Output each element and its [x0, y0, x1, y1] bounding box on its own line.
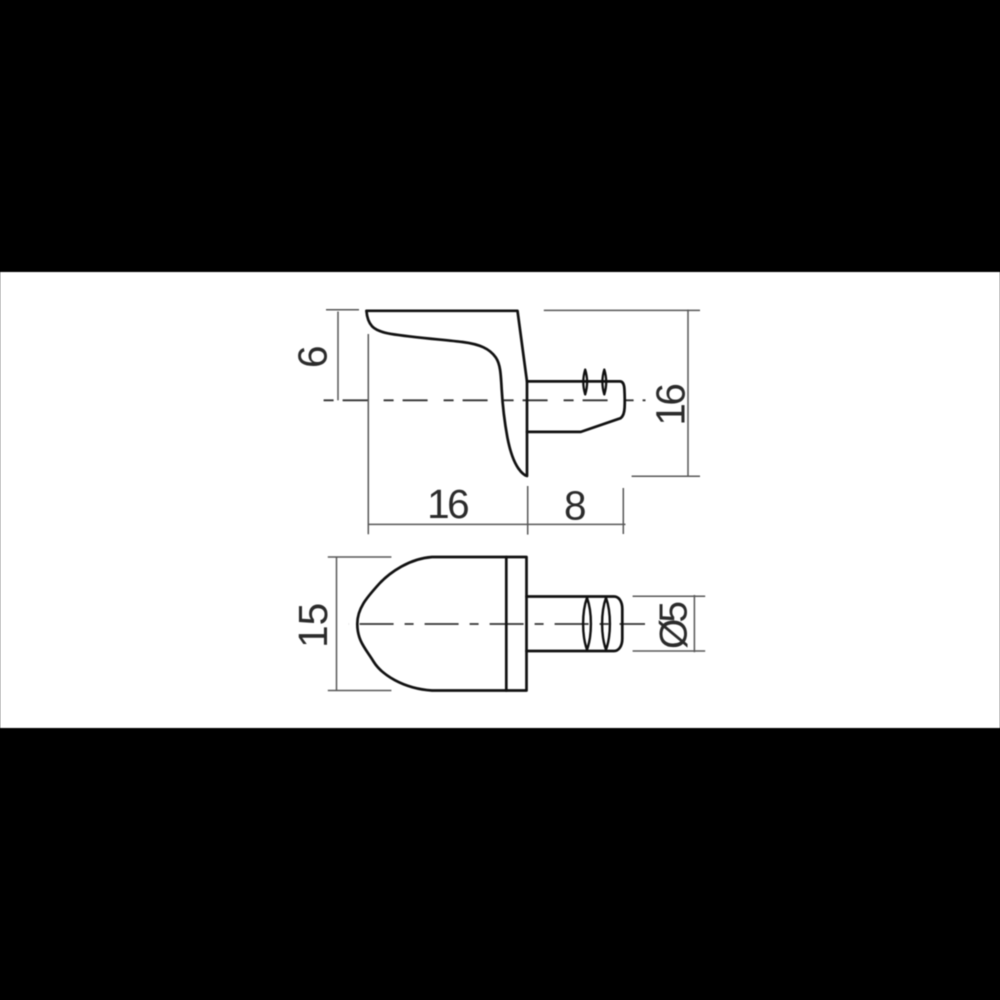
svg-text:16: 16: [648, 385, 694, 426]
svg-text:Ø5: Ø5: [652, 602, 695, 649]
svg-text:15: 15: [290, 603, 336, 648]
svg-text:16: 16: [427, 481, 468, 527]
svg-text:8: 8: [564, 483, 585, 529]
svg-text:6: 6: [290, 347, 336, 368]
